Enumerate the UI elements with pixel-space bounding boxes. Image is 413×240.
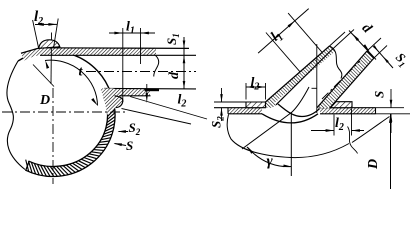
saddle curve lower [262, 114, 318, 123]
l2 left dimension line [246, 86, 266, 88]
plate left edge [227, 108, 229, 114]
bottom wall outer line [111, 95, 151, 97]
bottom wall inner line [104, 87, 196, 90]
patch right edge [265, 102, 267, 108]
S1 dimension right fig [374, 47, 393, 69]
l1 dimension line [109, 32, 155, 34]
l2 mid dimension line [311, 130, 334, 132]
gamma leg line [242, 87, 309, 149]
weld bead at junction [100, 88, 123, 115]
svg-text:γ: γ [267, 154, 274, 170]
arrow at weld root [146, 84, 148, 96]
l1 extension lines right fig [266, 33, 300, 72]
UL outer thin extension [330, 32, 346, 46]
gamma arc [247, 147, 291, 167]
pipe end cut [367, 51, 374, 58]
leader tick [33, 65, 54, 87]
branch pipe top wall hatched [40, 48, 156, 56]
weld collar left of top wall [21, 48, 40, 61]
plate left part hatched [228, 108, 262, 114]
leader lines to l2 [130, 97, 207, 120]
UL outer line [266, 46, 330, 102]
vertical reference line [316, 44, 318, 113]
l1 extension lines [122, 28, 124, 102]
break curve top wall [154, 55, 159, 76]
branch pipe bottom wall hatched [105, 88, 150, 95]
bottom wall lip dark [145, 88, 160, 91]
saddle curve upper [278, 104, 320, 117]
branch pipe lower-right wall hatched [317, 51, 374, 108]
S2 extension line [214, 101, 246, 103]
svg-text:S: S [372, 91, 387, 98]
d dimension right fig [349, 31, 376, 60]
weld bead l2 (dome) [39, 40, 60, 49]
plate right edge [375, 108, 377, 114]
S2 dimension right fig [221, 88, 223, 102]
inner surface arc right part [352, 117, 390, 143]
LR inner line [317, 51, 367, 108]
branch centerline [86, 71, 196, 73]
D dimension right fig [390, 114, 392, 189]
S dimension right fig [390, 89, 392, 108]
top wall outer line [40, 47, 189, 50]
top wall inner line [40, 54, 196, 56]
l2 left extension lines [245, 83, 247, 100]
branch pipe upper-left wall hatched [266, 46, 336, 103]
overlay patch left hatched [246, 102, 266, 108]
plate bottom line [228, 113, 262, 115]
main pipe wall section (annulus with radial ticks) [26, 94, 115, 177]
wavy break right [348, 127, 358, 154]
l2 mid extension lines [333, 115, 335, 136]
centerline horizontal [2, 111, 127, 113]
S extension lines [376, 107, 405, 109]
l1 dimension line right fig [258, 9, 309, 54]
LR outer line [330, 58, 375, 108]
centerline vertical [52, 88, 54, 184]
weld bump right hatched [331, 102, 353, 108]
weld axis tick [50, 33, 53, 85]
svg-text:d: d [167, 71, 182, 79]
plate top line [214, 107, 262, 109]
svg-text:D: D [39, 93, 50, 108]
l2 dimension line [35, 23, 57, 25]
break line left edge [7, 61, 25, 170]
S1 d dimension line [183, 37, 185, 89]
plate right part hatched [320, 108, 376, 114]
UL inner line [276, 51, 331, 105]
main pipe outer wall arc [18, 51, 111, 93]
pipe break squiggle [330, 46, 342, 79]
gamma vertical [290, 112, 292, 176]
pipe axis dash-dot [322, 61, 360, 99]
dimension arc t [45, 60, 98, 105]
inner surface arc left part [227, 115, 349, 158]
svg-text:D: D [366, 159, 381, 170]
svg-text:S: S [126, 138, 133, 153]
l2 extension lines [33, 20, 39, 49]
